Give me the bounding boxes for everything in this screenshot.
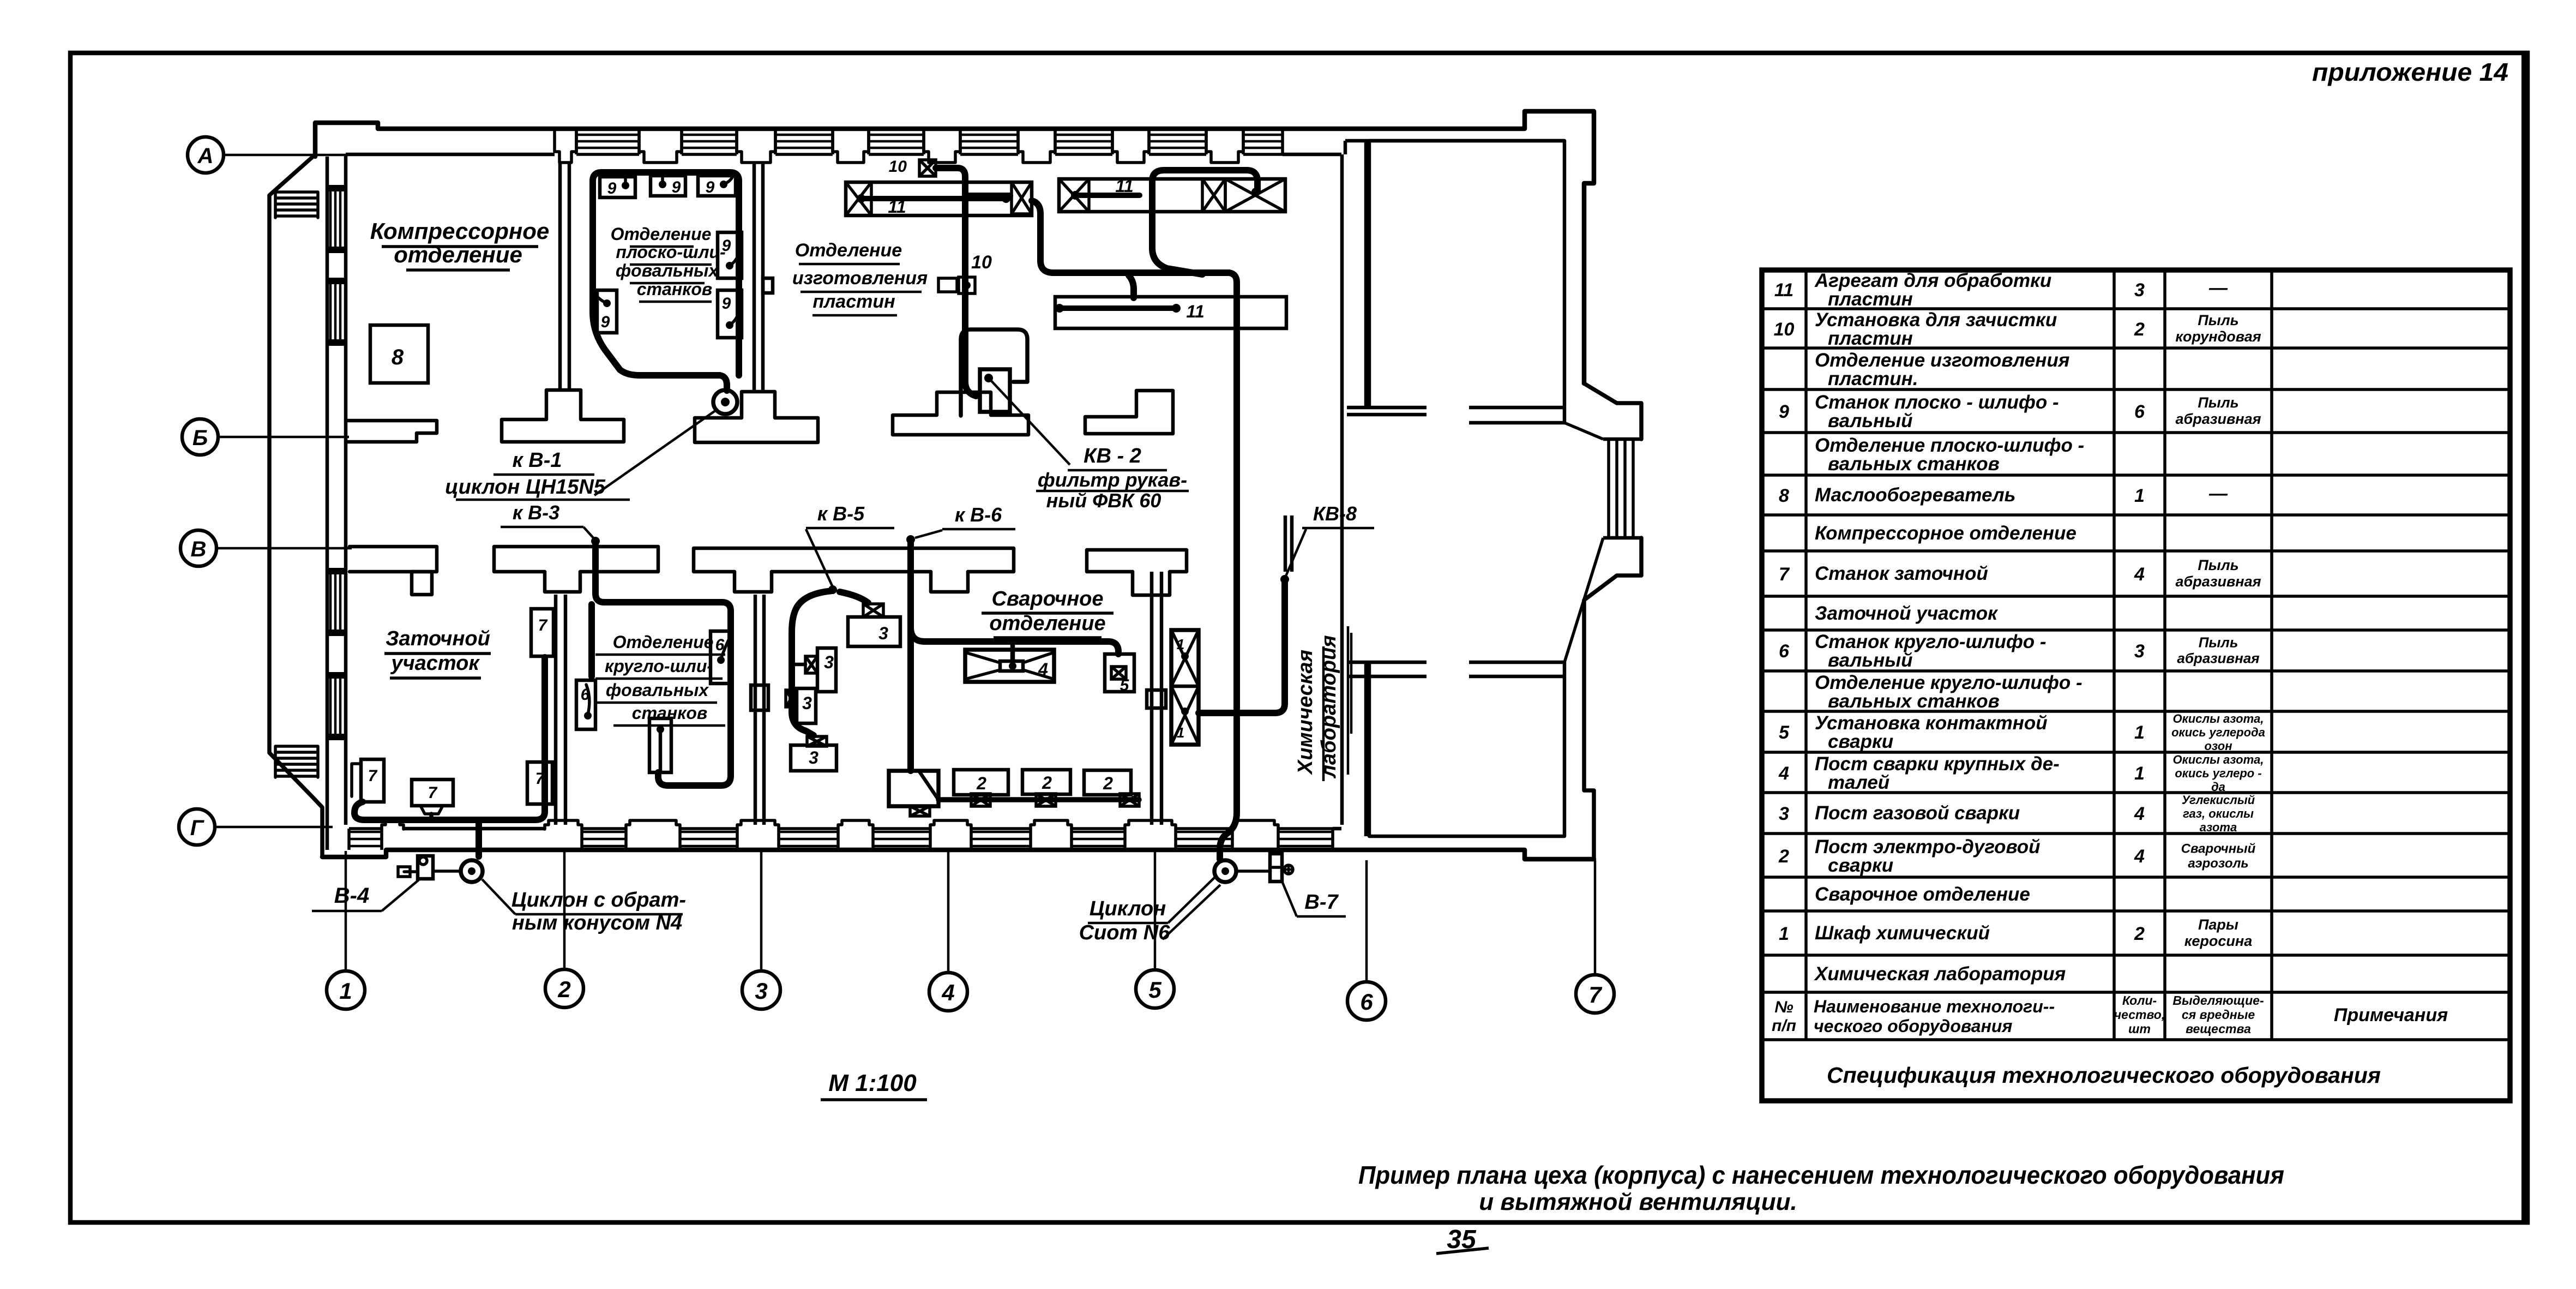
- svg-text:пластин: пластин: [812, 291, 895, 312]
- svg-text:Компрессорное: Компрессорное: [370, 218, 550, 244]
- duct left branch kruglo: [588, 604, 595, 676]
- right wing east outer wall: [1584, 383, 1641, 439]
- svg-text:участок: участок: [390, 652, 480, 675]
- svg-text:А: А: [197, 144, 214, 168]
- leader КВ-6: [915, 530, 942, 538]
- middle band stem C grid3: [735, 572, 772, 592]
- svg-text:Пыль: Пыль: [2198, 312, 2238, 328]
- grid circle 4: [929, 973, 967, 1011]
- svg-text:абразивная: абразивная: [2175, 573, 2261, 590]
- svg-text:п/п: п/п: [1772, 1017, 1796, 1035]
- svg-text:№: №: [1774, 998, 1793, 1016]
- svg-text:3: 3: [755, 978, 767, 1004]
- grid leader 2: [563, 851, 566, 969]
- top wall inner line right wing: [1345, 139, 1564, 143]
- machine 11 assembly 1: [846, 182, 1032, 215]
- svg-text:7: 7: [535, 770, 545, 788]
- duct loop kruglo room: [595, 543, 731, 786]
- leader КВ-8: [1286, 529, 1306, 576]
- svg-text:2: 2: [1042, 773, 1052, 793]
- svg-text:5: 5: [1148, 977, 1161, 1003]
- grid circle 7: [1576, 975, 1614, 1013]
- svg-text:ным конусом N4: ным конусом N4: [512, 912, 682, 934]
- fan 4 assembly: [965, 650, 1054, 682]
- svg-text:ный ФВК 60: ный ФВК 60: [1046, 489, 1161, 512]
- svg-text:Химическая лаборатория: Химическая лаборатория: [1814, 963, 2066, 985]
- wall kruglo east double line: [754, 595, 757, 825]
- machine 6 right box: [711, 631, 731, 684]
- svg-text:7: 7: [1588, 982, 1602, 1008]
- svg-text:Станок заточной: Станок заточной: [1815, 563, 1988, 584]
- svg-text:Сварочное: Сварочное: [991, 587, 1103, 610]
- svg-text:лаборатория: лаборатория: [1317, 635, 1340, 778]
- svg-text:11: 11: [1186, 302, 1204, 321]
- machine 6 left box: [576, 680, 595, 729]
- grid circle 2: [545, 969, 583, 1008]
- middle band wall segment D: [1087, 550, 1187, 572]
- svg-text:Пыль: Пыль: [2199, 634, 2238, 651]
- svg-text:1: 1: [2134, 485, 2145, 506]
- svg-text:Окислы азота,: Окислы азота,: [2172, 712, 2264, 726]
- svg-text:Пары: Пары: [2198, 916, 2238, 933]
- svg-text:9: 9: [722, 237, 731, 255]
- wall compressor east double line: [558, 161, 562, 390]
- svg-text:к В-1: к В-1: [512, 449, 562, 472]
- leader to cyclone N4: [482, 879, 515, 914]
- oil heater box 8: [370, 325, 428, 383]
- svg-text:Пыль: Пыль: [2198, 394, 2238, 411]
- valve machine 3D: [807, 736, 827, 746]
- lower staircase hatch: [275, 745, 318, 748]
- svg-text:4: 4: [1778, 763, 1789, 784]
- machine 3 box D: [791, 745, 836, 771]
- entrance bay window: [1603, 437, 1641, 441]
- middle band wall segment C: [694, 548, 1014, 572]
- svg-text:2: 2: [2134, 924, 2145, 944]
- cyclone KV-1 symbol: [713, 390, 737, 414]
- svg-text:Спецификация технологического: Спецификация технологического оборудован…: [1827, 1063, 2381, 1088]
- valve under 2 box1: [971, 794, 990, 806]
- svg-text:азота: азота: [2200, 820, 2237, 834]
- svg-text:7: 7: [368, 767, 378, 785]
- svg-text:сварки: сварки: [1828, 731, 1893, 752]
- footing of compressor east wall: [502, 390, 624, 442]
- bottom wall column stubs: [382, 820, 404, 829]
- svg-text:шт: шт: [2128, 1022, 2151, 1036]
- exhaust grille 10 box: [919, 160, 936, 176]
- collector duct welding posts: [938, 797, 1139, 802]
- machine 9 top box 2: [651, 176, 685, 196]
- filter KV-2 bracket: [961, 329, 1027, 416]
- svg-text:Отделение: Отделение: [611, 224, 712, 244]
- fume cupboard 1 chem lab: [1171, 630, 1199, 745]
- wall zatochnoy east double line: [554, 595, 558, 825]
- svg-text:аэрозоль: аэрозоль: [2188, 856, 2248, 871]
- svg-text:отделение: отделение: [394, 242, 522, 267]
- svg-text:Выделяющие-: Выделяющие-: [2172, 993, 2264, 1008]
- svg-text:1: 1: [339, 978, 352, 1004]
- svg-text:вальных станков: вальных станков: [1828, 453, 2000, 475]
- svg-text:11: 11: [1774, 280, 1793, 301]
- svg-text:Окислы азота,: Окислы азота,: [2172, 753, 2264, 766]
- middle band wall segment B: [494, 547, 658, 572]
- svg-text:11: 11: [1115, 176, 1133, 196]
- machine 9 right box 1: [718, 232, 742, 278]
- duct KV-8 to fume cupboard: [1199, 581, 1285, 713]
- left inner wall double line: [326, 157, 329, 850]
- svg-text:4: 4: [1038, 660, 1048, 679]
- svg-text:9: 9: [706, 178, 715, 196]
- cyclone with reverse cone N4: [461, 860, 483, 882]
- svg-text:5: 5: [1120, 676, 1130, 694]
- bottom wall inner line right plain section: [1333, 827, 1341, 831]
- svg-text:1: 1: [1177, 724, 1184, 741]
- machine 5 box: [1105, 654, 1134, 692]
- machine 3 box B: [817, 648, 836, 692]
- machine 7 box 4 at wall: [531, 609, 553, 656]
- svg-text:приложение 14: приложение 14: [2312, 58, 2508, 86]
- grid leader A: [224, 154, 349, 157]
- grid circle Б: [182, 419, 218, 455]
- svg-text:6: 6: [1779, 641, 1790, 662]
- machine 2 box 2: [1022, 770, 1070, 794]
- machine 3 box C: [797, 688, 816, 723]
- fan B-4 symbol: [418, 856, 433, 879]
- leader to KV-2 label: [989, 378, 1070, 465]
- svg-text:3: 3: [2134, 641, 2145, 662]
- svg-text:Г: Г: [190, 816, 205, 840]
- grid leader 5: [1154, 851, 1157, 970]
- upper staircase hatch: [275, 190, 318, 194]
- svg-text:Сварочное отделение: Сварочное отделение: [1815, 884, 2030, 905]
- valve machine 3C: [786, 690, 797, 707]
- svg-text:Пост газовой сварки: Пост газовой сварки: [1815, 802, 2020, 824]
- duct from assembly1 to collector: [1032, 201, 1229, 273]
- top wall outer line: [315, 111, 1594, 383]
- svg-text:Компрессорное отделение: Компрессорное отделение: [1815, 523, 2077, 544]
- svg-text:7: 7: [1779, 564, 1790, 585]
- svg-text:керосина: керосина: [2184, 933, 2253, 949]
- wall plosko east double line: [753, 161, 756, 392]
- valve under 2 box3: [1120, 794, 1139, 806]
- machine 9 top box 1: [600, 177, 635, 197]
- svg-text:—: —: [2208, 483, 2228, 504]
- duct stem to assembly 3: [1129, 275, 1134, 298]
- footing below KV-2 filter column: [893, 392, 1028, 435]
- svg-text:4: 4: [941, 980, 954, 1005]
- svg-text:9: 9: [1779, 401, 1789, 422]
- machine 9 top box 3: [698, 176, 736, 196]
- duct from grille 10 down: [936, 168, 965, 382]
- svg-text:КВ-8: КВ-8: [1313, 502, 1357, 525]
- svg-text:10: 10: [1774, 319, 1795, 340]
- grid circle 1: [327, 971, 365, 1009]
- machine 3 box A: [848, 617, 900, 646]
- svg-text:станков: станков: [637, 279, 712, 299]
- svg-text:1: 1: [1177, 636, 1184, 652]
- wall welding east double line: [1150, 572, 1154, 825]
- duct KV-6 down to collection box: [907, 541, 914, 771]
- grid leader 6: [1365, 860, 1368, 982]
- spec table column lines: [1804, 270, 1808, 1040]
- top wall inner line right plain section: [1283, 153, 1341, 157]
- svg-text:4: 4: [2134, 846, 2145, 867]
- svg-text:1: 1: [2134, 763, 2145, 784]
- svg-text:абразивная: абразивная: [2177, 650, 2259, 667]
- svg-text:плоско-шли-: плоско-шли-: [616, 242, 725, 262]
- machine 2 box 1: [954, 770, 1008, 795]
- svg-text:В-7: В-7: [1304, 891, 1339, 914]
- grid circle В: [180, 530, 216, 566]
- svg-text:вальный: вальный: [1828, 410, 1913, 431]
- leader cyclone SIOT: [1168, 876, 1216, 923]
- svg-text:—: —: [2208, 278, 2228, 298]
- svg-text:1: 1: [1779, 924, 1789, 944]
- svg-text:Наименование технологи--: Наименование технологи--: [1814, 997, 2055, 1016]
- svg-text:фовальных: фовальных: [606, 680, 709, 700]
- svg-text:2: 2: [1103, 774, 1113, 793]
- svg-text:пластин: пластин: [1828, 328, 1913, 349]
- svg-text:8: 8: [1779, 485, 1789, 506]
- leader to KV-1 label: [594, 410, 716, 495]
- svg-text:фовальных: фовальных: [616, 261, 719, 280]
- fan B-7 symbol: [1270, 854, 1282, 882]
- left wall window marks: [329, 191, 332, 247]
- svg-text:абразивная: абразивная: [2175, 411, 2261, 427]
- svg-text:чество,: чество,: [2114, 1008, 2165, 1022]
- machine 9 right box 2: [718, 290, 742, 338]
- svg-text:3: 3: [2134, 280, 2145, 301]
- collector duct zatochnoy: [354, 657, 545, 820]
- middle band wall segment A: [350, 547, 437, 572]
- grid circle 5: [1136, 970, 1174, 1008]
- pilaster on izgotovlenie west wall: [763, 278, 773, 293]
- left slant outer wall: [269, 157, 322, 857]
- duct rounded top over assembly 2: [1152, 170, 1257, 196]
- svg-text:9: 9: [722, 295, 731, 313]
- spec table row lines: [1762, 307, 2510, 310]
- svg-text:да: да: [2211, 780, 2225, 794]
- svg-text:В: В: [191, 537, 207, 561]
- svg-text:сварки: сварки: [1828, 855, 1893, 876]
- svg-text:2: 2: [976, 774, 986, 793]
- pilaster on kruglo east wall: [751, 685, 768, 710]
- svg-text:Маслообогреватель: Маслообогреватель: [1815, 484, 2015, 506]
- machine 9 left box: [597, 290, 617, 333]
- svg-text:Шкаф химический: Шкаф химический: [1815, 922, 1990, 944]
- valve under 2 box2: [1036, 794, 1056, 806]
- svg-text:ческого оборудования: ческого оборудования: [1814, 1016, 2012, 1036]
- machine 7 box 2: [412, 780, 453, 806]
- grid leader 4: [947, 851, 950, 973]
- machine 7 box 1: [361, 759, 384, 802]
- svg-text:Химическая: Химическая: [1294, 650, 1317, 775]
- middle band stem D grid5: [1133, 572, 1170, 595]
- svg-text:Пример плана цеха (корпуса): Пример плана цеха (корпуса) с нанесением…: [1358, 1161, 2284, 1189]
- spec table outer border: [1762, 270, 2510, 1101]
- svg-text:к В-3: к В-3: [513, 501, 559, 524]
- svg-text:к В-5: к В-5: [817, 502, 865, 525]
- grid leader 1: [345, 851, 347, 971]
- svg-text:7: 7: [428, 784, 438, 802]
- duct drop to cyclone N4: [476, 820, 482, 856]
- svg-text:11: 11: [888, 197, 906, 217]
- svg-text:вещества: вещества: [2186, 1022, 2251, 1036]
- grid circle 3: [742, 971, 780, 1009]
- grid leader В: [216, 547, 352, 550]
- svg-text:2: 2: [2134, 319, 2145, 340]
- svg-text:Заточной: Заточной: [386, 627, 490, 650]
- footing of plosko east wall: [695, 392, 818, 442]
- svg-text:изготовления: изготовления: [792, 268, 928, 289]
- svg-text:3: 3: [824, 652, 834, 672]
- machine 2 box 3: [1084, 770, 1131, 795]
- svg-text:КВ - 2: КВ - 2: [1084, 445, 1141, 467]
- svg-text:2: 2: [557, 976, 570, 1002]
- svg-text:2: 2: [1778, 846, 1789, 867]
- svg-text:отделение: отделение: [989, 612, 1105, 635]
- right wing bottom room walls: [1369, 662, 1564, 836]
- svg-text:6: 6: [1360, 989, 1373, 1015]
- entrance hall side walls: [1564, 423, 1565, 662]
- svg-text:кругло-шли-: кругло-шли-: [605, 656, 713, 676]
- right wing west wall upper: [1364, 141, 1368, 406]
- svg-text:Сварочный: Сварочный: [2181, 842, 2256, 856]
- valve machine 3B: [805, 656, 817, 673]
- duct S-drop from assembly 2: [1152, 196, 1202, 274]
- svg-text:Пыль: Пыль: [2198, 557, 2238, 573]
- svg-text:В-4: В-4: [334, 884, 369, 908]
- svg-text:3: 3: [809, 748, 818, 768]
- svg-text:Сиот N6: Сиот N6: [1079, 921, 1171, 944]
- leader to B-4: [382, 880, 419, 911]
- pilaster on welding east wall: [1147, 690, 1166, 708]
- svg-text:Отделение: Отделение: [613, 632, 714, 652]
- svg-text:Циклон: Циклон: [1090, 897, 1166, 920]
- main vertical duct to cyclone SIOT: [1220, 273, 1237, 859]
- svg-text:3: 3: [1779, 804, 1789, 824]
- svg-text:1: 1: [2134, 722, 2145, 743]
- svg-text:9: 9: [672, 178, 681, 196]
- grid leader Г: [215, 826, 333, 829]
- svg-text:Б: Б: [192, 426, 208, 450]
- bottom wall outer line: [322, 850, 1594, 859]
- middle band stem A: [412, 572, 432, 595]
- middle band stem C grid4: [931, 572, 968, 592]
- svg-text:к В-6: к В-6: [955, 503, 1002, 526]
- right wing west wall lower: [1364, 662, 1368, 836]
- ledge on west wall at grid B: [346, 421, 437, 442]
- junction box pair on duct 10: [938, 278, 957, 292]
- svg-text:Коли-: Коли-: [2122, 993, 2157, 1008]
- grid circle Г: [179, 809, 215, 845]
- right wing top room walls: [1369, 141, 1564, 406]
- svg-text:9: 9: [607, 179, 617, 197]
- middle band stem B grid2: [545, 572, 580, 592]
- grid circle 6: [1347, 982, 1386, 1020]
- valve under collection box: [910, 806, 930, 816]
- machine 7 box 3: [527, 762, 552, 804]
- bottom wall inner line left plain section: [404, 827, 545, 831]
- svg-text:пластин: пластин: [1828, 289, 1913, 310]
- svg-text:М 1:100: М 1:100: [828, 1070, 917, 1096]
- svg-text:Углекислый: Углекислый: [2182, 793, 2255, 807]
- svg-text:циклон ЦН15N5: циклон ЦН15N5: [445, 476, 606, 499]
- svg-text:и вытяжной вентиляции.: и вытяжной вентиляции.: [1479, 1189, 1797, 1215]
- svg-text:8: 8: [392, 345, 404, 369]
- svg-text:окись углерода: окись углерода: [2171, 726, 2265, 739]
- grid leader 7: [1594, 860, 1597, 975]
- svg-text:3: 3: [878, 623, 888, 643]
- top wall windows: [575, 130, 578, 154]
- valve above machine 3A: [863, 604, 883, 617]
- machine 11 assembly 3: [1055, 297, 1286, 328]
- duct KV-5 welding: [828, 585, 837, 594]
- svg-text:4: 4: [2134, 564, 2145, 585]
- L footing at grid 5 upper: [1085, 391, 1173, 434]
- svg-text:газ, окислы: газ, окислы: [2183, 807, 2254, 820]
- top wall inner line left plain section: [346, 153, 555, 157]
- grid leader Б: [218, 436, 349, 439]
- duct welding upper branch: [911, 627, 1118, 654]
- svg-text:Отделение: Отделение: [795, 240, 902, 261]
- leader B-7: [1283, 883, 1297, 916]
- machine box kruglo center: [649, 718, 671, 772]
- svg-text:9: 9: [601, 313, 610, 331]
- leader КВ-3: [583, 527, 593, 538]
- svg-text:4: 4: [2134, 804, 2145, 824]
- svg-text:7: 7: [538, 616, 548, 634]
- fan B-4 flag: [404, 870, 417, 873]
- duct branch to machine 11 row1: [965, 193, 1010, 199]
- svg-text:фильтр рукав-: фильтр рукав-: [1038, 469, 1187, 491]
- svg-text:Заточной участок: Заточной участок: [1815, 603, 1999, 624]
- main hall east wall: [1340, 154, 1344, 825]
- svg-text:ся вредные: ся вредные: [2182, 1008, 2255, 1022]
- top wall column stubs: [555, 130, 576, 163]
- svg-text:корундовая: корундовая: [2175, 328, 2261, 345]
- cyclone SIOT N6 symbol: [1214, 860, 1236, 882]
- svg-text:Примечания: Примечания: [2334, 1005, 2448, 1026]
- duct loop plosko room: [593, 172, 739, 312]
- svg-text:6: 6: [2134, 401, 2145, 422]
- svg-text:пластин.: пластин.: [1828, 368, 1918, 389]
- filter KV-2 box: [980, 369, 1010, 412]
- svg-text:3: 3: [802, 693, 812, 713]
- svg-text:озон: озон: [2204, 739, 2232, 753]
- wall stub above chem lab: [1284, 515, 1287, 572]
- grid circle A: [188, 137, 224, 173]
- bottom wall windows: [347, 829, 351, 850]
- machine 11 assembly 2: [1059, 179, 1285, 212]
- collection box welding: [889, 771, 938, 806]
- svg-text:талей: талей: [1828, 772, 1889, 793]
- svg-text:окись углеро -: окись углеро -: [2175, 766, 2261, 780]
- svg-text:10: 10: [971, 252, 992, 273]
- svg-text:5: 5: [1779, 722, 1790, 743]
- svg-text:вальных станков: вальных станков: [1828, 691, 2000, 712]
- grid leader 3: [760, 851, 763, 971]
- svg-text:Циклон с обрат-: Циклон с обрат-: [511, 889, 686, 912]
- svg-text:10: 10: [889, 158, 907, 176]
- svg-text:вальный: вальный: [1828, 650, 1913, 671]
